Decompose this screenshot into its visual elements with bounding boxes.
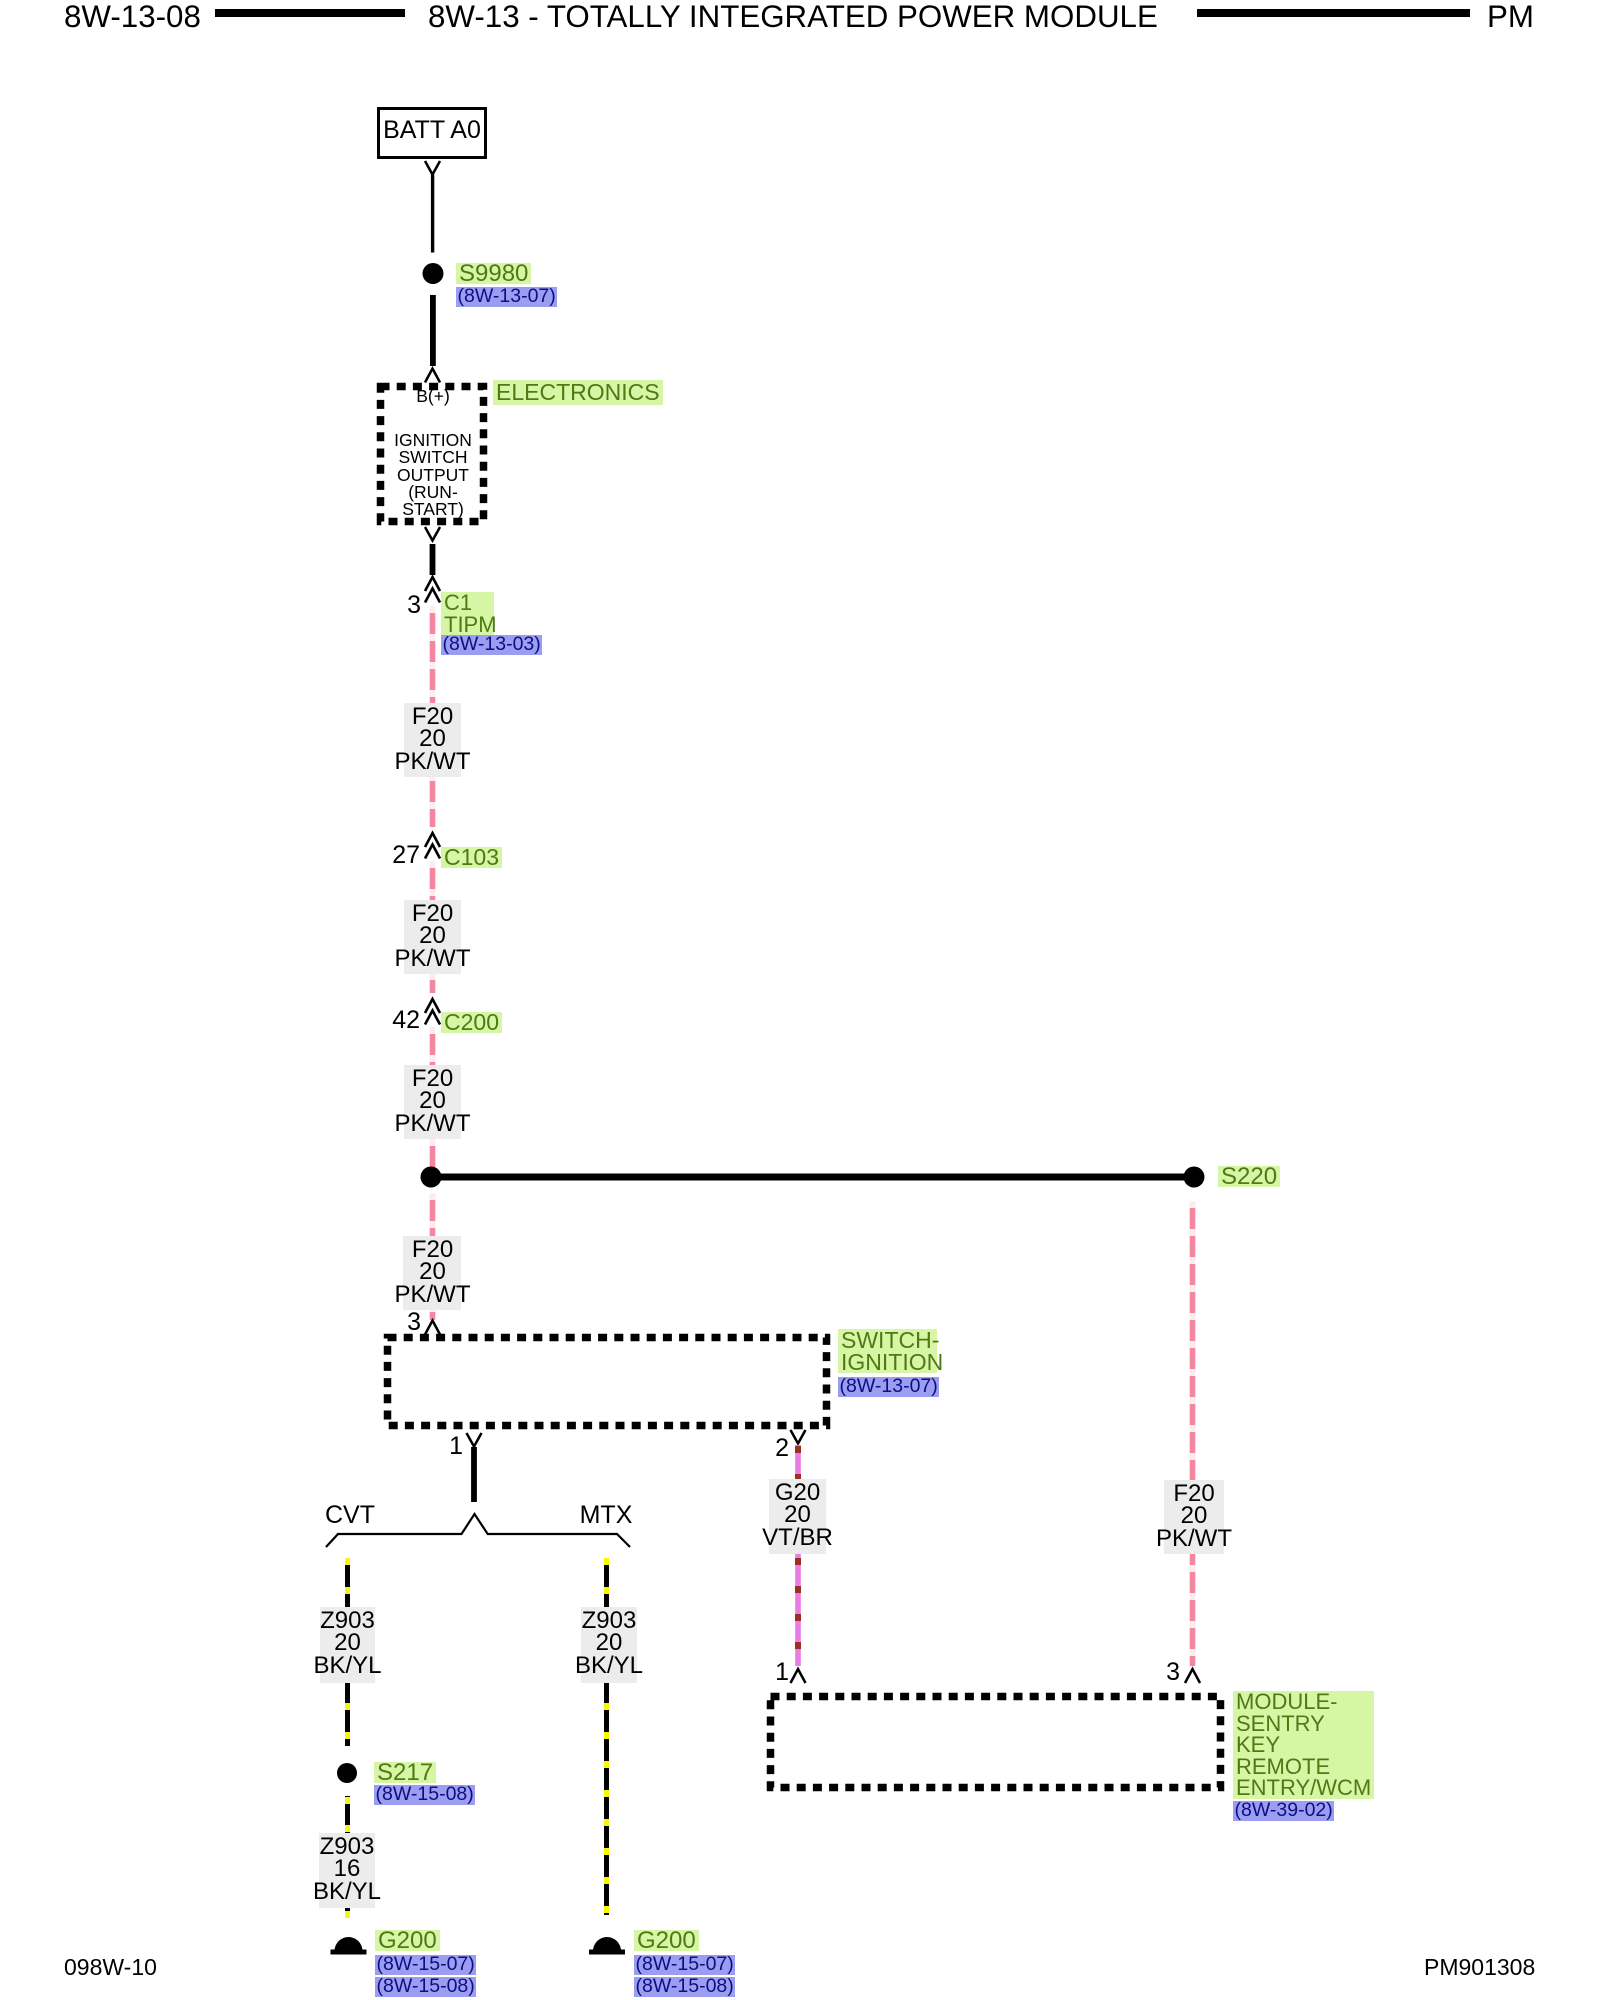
pin number 3 module <box>1148 1660 1180 1685</box>
male connector pin 1 module <box>791 1669 806 1683</box>
wire ELECTRONICS to connector C1 <box>430 544 436 575</box>
female connector pin 2 switch-ignition <box>791 1430 806 1444</box>
ground G200 CVT <box>331 1937 367 1955</box>
page number 8W-13-08 <box>64 1 201 32</box>
wire label Z903 16 BK/YL <box>319 1833 375 1908</box>
label splice S217 <box>374 1761 436 1785</box>
wire label F20 20 PK/WT first <box>404 703 461 777</box>
wire Z903 16 BK/YL stub above ground <box>345 1908 350 1918</box>
wire label F20 20 PK/WT right <box>1164 1480 1224 1554</box>
component SWITCH-IGNITION dashed box <box>388 1338 827 1426</box>
connector C200 double chevron <box>425 999 440 1025</box>
female connector below BATT A0 <box>425 161 440 175</box>
pin number 27 connector C103 <box>388 843 420 868</box>
wire label G20 20 VT/BR <box>769 1479 826 1554</box>
header PM <box>1487 1 1534 32</box>
battery feed box BATT A0 <box>379 109 486 158</box>
wire F20 20 PK/WT segment C1 to C103 <box>430 606 436 827</box>
branch label CVT <box>290 1503 410 1528</box>
wire label Z903 20 BK/YL MTX <box>581 1607 637 1683</box>
label SWITCH-IGNITION <box>838 1329 937 1374</box>
wire F20 20 PK/WT splice S220 to module pin 3 <box>1190 1201 1196 1666</box>
connector C1 double chevron <box>425 577 440 603</box>
pin number 2 switch-ignition <box>757 1436 789 1461</box>
ground G200 MTX <box>589 1937 625 1955</box>
reference 8W-15-08 ground CVT <box>375 1975 476 1998</box>
label MODULE-SENTRY KEY REMOTE ENTRY/WCM <box>1233 1691 1374 1799</box>
pin number 3 connector C1 <box>389 593 421 618</box>
female connector below ELECTRONICS box <box>425 527 440 541</box>
pin number 1 switch-ignition <box>431 1434 463 1459</box>
wire G20 20 VT/BR pin 2 to module pin 1 <box>795 1445 801 1666</box>
pin number 1 module <box>757 1660 789 1685</box>
wire label Z903 20 BK/YL CVT <box>320 1607 375 1683</box>
label splice S220 <box>1218 1165 1280 1189</box>
title 8W-13 - TOTALLY INTEGRATED POWER MODULE <box>428 1 1158 32</box>
label ELECTRONICS <box>493 379 663 406</box>
pin number 42 connector C200 <box>388 1008 420 1033</box>
component ELECTRONICS (ignition switch output run-start) dashed box <box>381 387 484 522</box>
branch label MTX <box>546 1503 666 1528</box>
footer sheet number 098W-10 <box>64 1956 157 1979</box>
label BATT A0 <box>377 118 487 143</box>
label connector C1 TIPM <box>441 592 494 635</box>
label splice S9980 <box>456 262 531 286</box>
header rule right <box>1197 9 1470 17</box>
component MODULE-SENTRY KEY REMOTE ENTRY/WCM dashed box <box>771 1697 1221 1788</box>
reference 8W-15-08 ground MTX <box>634 1975 735 1998</box>
wire Z903 16 BK/YL splice S217 to label <box>345 1796 350 1833</box>
reference 8W-13-03 for C1 <box>441 633 542 656</box>
wire label F20 20 PK/WT fourth <box>403 1236 461 1310</box>
wire BATT A0 to splice <box>431 175 434 253</box>
wire F20 20 PK/WT segment C200 to splice S220 <box>430 1027 436 1177</box>
splice S217 <box>337 1763 357 1783</box>
wire switch-ignition pin 1 to transmission branch <box>471 1447 477 1502</box>
male connector pin 3 switch-ignition <box>425 1321 440 1335</box>
wire Z903 20 BK/YL CVT upper segment <box>345 1558 350 1746</box>
splice S9980 <box>423 263 444 284</box>
reference 8W-15-07 ground CVT <box>375 1953 476 1976</box>
pin label B(+) <box>377 388 489 405</box>
female connector pin 1 switch-ignition <box>467 1433 482 1447</box>
label ground G200 MTX <box>634 1929 699 1953</box>
connector C103 double chevron <box>425 833 440 859</box>
reference 8W-13-07 for switch-ignition <box>838 1375 939 1398</box>
label ground G200 CVT <box>375 1929 440 1953</box>
wire F20 20 PK/WT splice S220 to switch-ignition pin 3 <box>430 1193 436 1320</box>
label connector C200 <box>441 1009 502 1036</box>
label connector C103 <box>441 844 502 871</box>
reference 8W-15-08 for S217 <box>374 1783 475 1806</box>
footer code PM901308 <box>1424 1956 1535 1979</box>
component text IGNITION SWITCH OUTPUT (RUN-START) <box>377 432 489 518</box>
pin number 3 switch-ignition <box>389 1310 421 1335</box>
header rule left <box>215 9 405 17</box>
wire F20 20 PK/WT segment C103 to C200 <box>430 861 436 993</box>
reference 8W-15-07 ground MTX <box>634 1953 735 1976</box>
splice S220 bus wire <box>421 1167 1205 1188</box>
wire label F20 20 PK/WT third <box>404 1065 461 1139</box>
reference 8W-39-02 for module <box>1233 1799 1334 1822</box>
wire splice S9980 to B(+) <box>430 295 436 366</box>
male connector pin B(+) <box>425 369 440 383</box>
reference 8W-13-07 for S9980 <box>456 285 557 308</box>
male connector pin 3 module <box>1185 1669 1200 1683</box>
branch brace CVT / MTX <box>326 1514 630 1547</box>
wire label F20 20 PK/WT second <box>404 900 461 974</box>
wire Z903 20 BK/YL MTX segment <box>604 1558 609 1915</box>
